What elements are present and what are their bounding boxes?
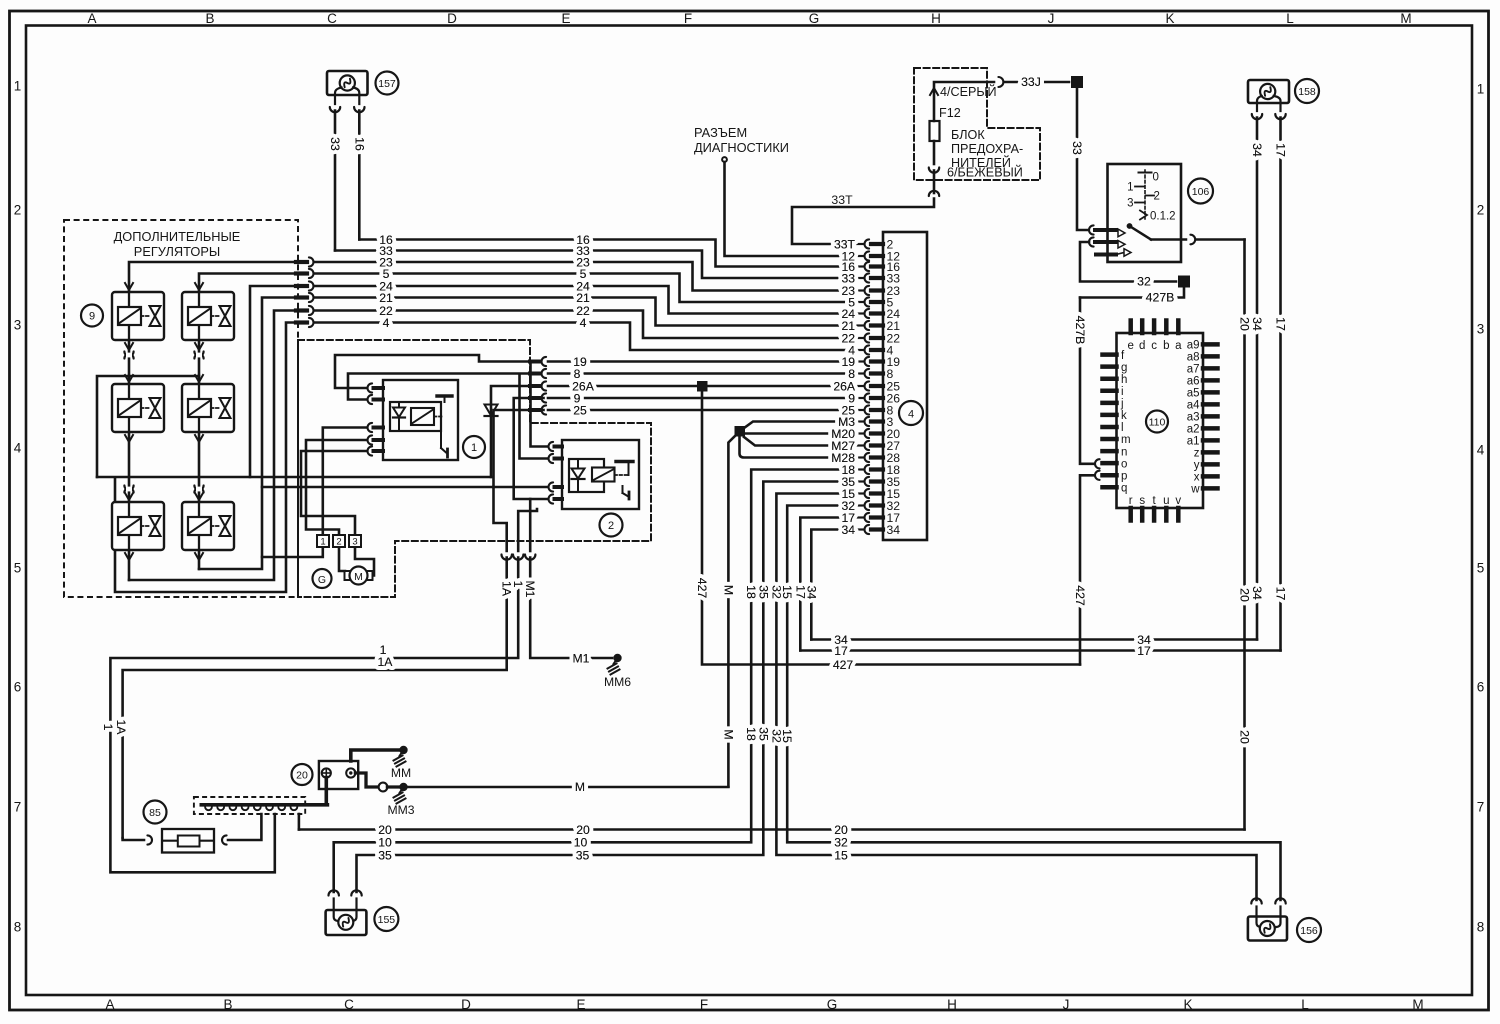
wire 32 (row 32 to 156 right): [787, 506, 1280, 901]
svg-text:K: K: [1165, 11, 1174, 26]
ECU pin 22/22: [857, 331, 900, 345]
connector on wire 34 of 158: [1252, 114, 1262, 119]
svg-text:35: 35: [756, 727, 770, 741]
regulator valve 21: [112, 384, 164, 432]
svg-text:4/СЕРЫЙ: 4/СЕРЫЙ: [940, 84, 997, 99]
ECU connector 4 body: [883, 232, 927, 540]
wire from fuse bottom: [933, 141, 936, 164]
svg-text:1: 1: [380, 643, 387, 657]
svg-text:a5: a5: [1187, 388, 1200, 400]
svg-text:3: 3: [352, 536, 357, 547]
svg-text:17: 17: [1274, 317, 1288, 331]
ECU pin 12/12: [857, 249, 900, 263]
wire 33T from fuse to connector pin: [792, 199, 934, 245]
wire 34 horizontal: [811, 638, 1257, 641]
svg-text:32: 32: [834, 836, 848, 850]
switch left pin 2 (wire 32): [1089, 237, 1125, 248]
svg-text:33: 33: [1070, 141, 1084, 155]
label circle 155: [374, 907, 398, 931]
svg-text:4: 4: [580, 316, 587, 330]
svg-text:M: M: [1400, 11, 1411, 26]
junction node 26A/427: [697, 381, 708, 392]
regulator valve 11: [112, 292, 164, 340]
svg-text:М: М: [354, 571, 363, 583]
wire col1 vertical: [128, 292, 131, 580]
comp1 left pins: [367, 383, 383, 455]
ECU pin 33Т/2: [857, 237, 894, 251]
wire strip to 20 line: [298, 814, 301, 830]
svg-text:L: L: [1301, 997, 1309, 1012]
svg-text:6: 6: [1477, 680, 1485, 695]
regulator valve 31: [112, 502, 164, 550]
component 1 injection module: [383, 380, 458, 460]
svg-text:20: 20: [296, 770, 308, 782]
svg-text:2: 2: [14, 203, 22, 218]
svg-text:М1: М1: [573, 651, 590, 665]
switch left pin 1 (wire 33): [1089, 225, 1125, 236]
ground MM6: [604, 654, 631, 689]
svg-text:B: B: [205, 11, 214, 26]
svg-text:M: M: [1412, 997, 1423, 1012]
svg-text:34: 34: [1250, 317, 1264, 331]
svg-text:F: F: [700, 997, 708, 1012]
diode: [485, 405, 498, 417]
svg-text:106: 106: [1192, 186, 1210, 198]
row numbers right: [1477, 82, 1485, 935]
wire 487 bus to comp2 pin3: [262, 486, 548, 489]
svg-text:ММ6: ММ6: [604, 675, 631, 689]
ECU pin 18/18: [857, 463, 900, 477]
regulator valve 32: [182, 502, 234, 550]
wire 8: [548, 372, 851, 375]
svg-text:p: p: [1121, 470, 1127, 482]
svg-text:o: o: [1121, 458, 1127, 470]
svg-text:110: 110: [1149, 417, 1166, 429]
wire 35: [357, 482, 845, 893]
component 157 ignition module: [327, 71, 368, 104]
svg-text:G: G: [318, 574, 326, 586]
label circle 20: [292, 764, 313, 785]
svg-text:427: 427: [695, 578, 709, 599]
svg-text:34: 34: [804, 586, 818, 600]
relay 20 box: [319, 761, 358, 789]
wire 33J to junction: [1004, 81, 1069, 84]
wire 1A vertical: [494, 487, 507, 551]
svg-text:34: 34: [841, 523, 855, 537]
wire 20 bottom: [299, 828, 1245, 831]
wire 33 from 157: [334, 111, 337, 251]
svg-text:21: 21: [576, 291, 590, 305]
svg-text:ММ: ММ: [391, 766, 411, 780]
wire M vertical: [728, 436, 735, 787]
wire box1 to regulator bus: [262, 547, 323, 557]
svg-text:4: 4: [14, 441, 22, 456]
svg-text:17: 17: [1137, 644, 1151, 658]
svg-text:E: E: [561, 11, 570, 26]
svg-text:k: k: [1121, 410, 1127, 422]
ECU pin 34/34: [857, 523, 900, 537]
svg-text:М: М: [721, 729, 735, 739]
regulator output pins: [296, 257, 314, 327]
svg-text:34: 34: [887, 523, 901, 537]
svg-text:34: 34: [1250, 586, 1264, 600]
wire 34 from 158 down: [1256, 118, 1259, 640]
svg-text:БЛОК: БЛОК: [951, 128, 985, 142]
label circle 158: [1295, 79, 1319, 103]
ECU pin 8/8: [857, 367, 894, 381]
wire relay 20 to ground MM: [351, 750, 400, 761]
wire comp1 pin2 to 8: [348, 374, 532, 400]
svg-text:1: 1: [1127, 182, 1133, 194]
ECU pin 35/35: [857, 475, 900, 489]
svg-text:a3: a3: [1187, 412, 1200, 424]
connector strip bus bar: [201, 803, 327, 807]
svg-text:a4: a4: [1187, 400, 1200, 412]
ECU pin М3/3: [857, 415, 894, 429]
svg-text:g: g: [1121, 362, 1127, 374]
svg-text:d: d: [1139, 340, 1145, 352]
wire comp1 pin3 to box 1: [323, 428, 367, 536]
svg-text:J: J: [1048, 11, 1055, 26]
motor M: [345, 567, 373, 585]
svg-text:15: 15: [834, 848, 848, 862]
svg-text:H: H: [931, 11, 941, 26]
svg-text:q: q: [1121, 482, 1127, 494]
svg-text:G: G: [809, 11, 820, 26]
label circle 1: [463, 436, 485, 458]
svg-text:A: A: [105, 997, 114, 1012]
ECU pin 9/26: [857, 391, 900, 405]
svg-text:33: 33: [328, 137, 342, 151]
svg-text:K: K: [1183, 997, 1192, 1012]
wire M27: [744, 437, 851, 446]
svg-text:157: 157: [378, 78, 396, 90]
svg-text:21: 21: [379, 291, 393, 305]
svg-text:3: 3: [1477, 322, 1485, 337]
ECU pin 5/5: [857, 295, 894, 309]
svg-text:РЕГУЛЯТОРЫ: РЕГУЛЯТОРЫ: [134, 244, 220, 259]
svg-text:1: 1: [14, 79, 22, 94]
fuse box dashed outline: [914, 68, 1040, 180]
ECU pin 24/24: [857, 307, 900, 321]
svg-text:3: 3: [14, 318, 22, 333]
connector 110 left pins f-q: [1103, 350, 1131, 495]
wire 24 bus: [314, 286, 851, 314]
arrows regulator 21: [125, 375, 133, 442]
connector strip dashed box: [194, 797, 305, 814]
svg-text:5: 5: [14, 561, 22, 576]
wire 26A to diode: [491, 386, 532, 477]
svg-text:D: D: [447, 11, 457, 26]
wire relay 20 to MM3: [355, 773, 378, 787]
svg-text:G: G: [827, 997, 838, 1012]
connector on wire 33 of 157: [330, 107, 340, 112]
wire 427B elbow: [1080, 288, 1184, 298]
component 156 sensor: [1248, 907, 1287, 941]
fuse 85 right connector: [222, 835, 227, 844]
svg-text:М: М: [575, 780, 585, 794]
svg-text:a1: a1: [1187, 436, 1200, 448]
label circle 9: [81, 305, 103, 327]
wire 17 vertical: [800, 518, 844, 651]
ECU pin 21/21: [857, 319, 900, 333]
ECU pin 4/4: [857, 343, 894, 357]
ECU pin 19/19: [857, 355, 900, 369]
connector on 155 right wire: [351, 890, 361, 895]
arrows regulator 12: [195, 283, 203, 350]
wire 16 from 157: [358, 111, 361, 240]
wire 25 branch: [494, 410, 544, 487]
component 158 ignition module: [1248, 80, 1289, 111]
wire pin 24 branch: [250, 286, 296, 477]
connector 110 bottom pins r s t u v: [1129, 495, 1182, 521]
wire 23 bus: [314, 262, 851, 291]
wire relay 20 to strip: [324, 778, 328, 804]
wire comp2 pin2 to 8: [520, 374, 549, 459]
svg-text:18: 18: [744, 585, 758, 599]
svg-text:v: v: [1175, 495, 1181, 507]
wire M1 vertical: [529, 499, 532, 551]
svg-text:РАЗЪЕМ: РАЗЪЕМ: [694, 125, 747, 140]
svg-text:ДИАГНОСТИКИ: ДИАГНОСТИКИ: [694, 140, 789, 155]
wire comp1 pin5 to box 3: [301, 451, 367, 535]
svg-text:8: 8: [1477, 920, 1485, 935]
ECU pin 15/15: [857, 487, 900, 501]
svg-text:20: 20: [1238, 588, 1252, 602]
ECU pin 32/32: [857, 499, 900, 513]
label circle 110: [1146, 411, 1168, 433]
column letters top: [87, 11, 1411, 26]
additional regulators title: [114, 229, 241, 259]
svg-text:F12: F12: [939, 106, 961, 120]
arrows regulator 11: [125, 283, 133, 350]
wire M28: [740, 437, 852, 458]
wire from switch to 20 vertical: [1196, 238, 1245, 241]
fuse box labels: [939, 84, 1023, 180]
wire 427 vertical: [702, 392, 1080, 665]
label circle 106: [1188, 179, 1213, 204]
svg-text:C: C: [344, 997, 354, 1012]
diagnostic connector label: [694, 125, 789, 162]
svg-text:20: 20: [1238, 730, 1252, 744]
svg-text:C: C: [327, 11, 337, 26]
svg-text:7: 7: [14, 800, 22, 815]
wire box3 to motor: [355, 547, 374, 576]
arrows regulator 22: [195, 375, 203, 442]
wire 9 to comp2 pin4: [514, 398, 548, 499]
svg-text:427В: 427В: [1146, 291, 1175, 305]
svg-text:6/БЕЖЕВЫЙ: 6/БЕЖЕВЫЙ: [947, 165, 1023, 180]
svg-text:6: 6: [14, 680, 22, 695]
component 155 sensor: [326, 899, 367, 936]
ECU pin 25/8: [857, 403, 894, 417]
label circle 156: [1297, 918, 1321, 942]
additional regulators dashed box: [64, 220, 298, 597]
svg-text:5: 5: [1477, 561, 1485, 576]
svg-text:34: 34: [1250, 143, 1264, 157]
label circle 4: [899, 401, 923, 425]
svg-text:E: E: [576, 997, 585, 1012]
svg-text:33Т: 33Т: [831, 193, 853, 207]
svg-text:l: l: [1121, 422, 1124, 434]
junction node M: [735, 426, 746, 437]
svg-text:1А: 1А: [378, 655, 394, 669]
wire col2 vertical: [198, 292, 201, 569]
ECU pin М27/27: [857, 439, 900, 453]
svg-text:158: 158: [1298, 86, 1316, 98]
svg-text:1: 1: [1477, 82, 1485, 97]
switch position diagram: [1127, 170, 1175, 223]
wire 15 (row 15 to 156 left): [776, 494, 1256, 901]
wire pin 21 branch: [199, 298, 296, 570]
svg-text:1: 1: [320, 536, 325, 547]
svg-text:2: 2: [608, 520, 614, 532]
svg-text:427В: 427В: [1073, 316, 1087, 345]
wire pin 4 branch: [115, 323, 296, 593]
svg-text:2: 2: [336, 536, 341, 547]
svg-text:1А: 1А: [114, 719, 128, 735]
svg-text:15: 15: [780, 729, 794, 743]
svg-text:32: 32: [1137, 275, 1151, 289]
wire 9: [548, 397, 851, 400]
wire 19: [548, 360, 851, 363]
svg-text:156: 156: [1300, 925, 1318, 937]
svg-text:a7: a7: [1187, 364, 1200, 376]
svg-text:ПРЕДОХРА-: ПРЕДОХРА-: [951, 142, 1023, 156]
column letters bottom: [105, 997, 1423, 1012]
components 1-2 dashed outline: [298, 340, 651, 597]
fuse lower connector pair: [929, 168, 939, 173]
junction node 33J/33: [1071, 76, 1083, 88]
regulator valve 22: [182, 384, 234, 432]
svg-text:w: w: [1190, 484, 1200, 496]
connector on 156 left wire: [1251, 898, 1261, 903]
wire comp1 pin4 to box 2: [306, 440, 367, 535]
svg-text:85: 85: [149, 807, 161, 819]
svg-text:0: 0: [1153, 172, 1159, 184]
inline connector pair regulator column: [124, 486, 133, 493]
svg-text:4: 4: [1477, 443, 1485, 458]
connector pin p inline connector: [1095, 471, 1100, 480]
wire 427 from pin p down: [1080, 475, 1094, 664]
connector strip contacts: [205, 807, 297, 810]
terminal box 3: [349, 535, 361, 547]
svg-text:s: s: [1139, 495, 1145, 507]
wire 18 (to 10): [334, 470, 844, 893]
wire 32 from switch pin 2: [1080, 242, 1176, 282]
svg-text:1: 1: [471, 442, 477, 454]
svg-text:n: n: [1121, 446, 1127, 458]
ignition switch 106 body: [1108, 164, 1182, 262]
wire comp2 pin1 to 19: [531, 362, 549, 447]
wire 1A to fuse 85: [123, 838, 144, 840]
svg-text:16: 16: [352, 137, 366, 151]
svg-text:H: H: [947, 997, 957, 1012]
svg-text:20: 20: [378, 823, 392, 837]
inline connector pair regulator column: [194, 486, 203, 493]
wire M horizontal: [408, 786, 729, 789]
svg-text:20: 20: [834, 823, 848, 837]
connector 110 top pins e d c b a: [1127, 321, 1182, 353]
connector 110 body: [1117, 333, 1204, 508]
svg-text:D: D: [461, 997, 471, 1012]
connector on 155 left wire: [329, 890, 339, 895]
wire 5 bus: [314, 274, 851, 303]
svg-text:35: 35: [576, 848, 590, 862]
svg-text:1: 1: [101, 724, 115, 731]
svg-text:B: B: [223, 997, 232, 1012]
wire M20: [745, 432, 851, 435]
inline connector pair regulator column: [194, 352, 203, 359]
row numbers left: [14, 79, 22, 935]
connector 110 right pins a9-a1 z y x w: [1187, 340, 1218, 496]
wire 20 vertical: [1243, 240, 1246, 830]
switch output connector: [1190, 235, 1195, 245]
generator circle G: [313, 569, 332, 588]
label circle 157: [376, 72, 399, 95]
wire to ground MM3: [387, 785, 400, 788]
wire 21 bus: [314, 298, 851, 326]
pins 19/8/26A/9/25 at dashed edge: [530, 357, 546, 415]
svg-text:18: 18: [744, 727, 758, 741]
svg-text:a: a: [1175, 340, 1182, 352]
svg-text:L: L: [1286, 11, 1294, 26]
svg-text:m: m: [1121, 434, 1131, 446]
ECU pin 26А/25: [857, 379, 900, 393]
connector pin o inline connector: [1095, 459, 1100, 468]
terminal box 1: [317, 535, 329, 547]
svg-text:1: 1: [511, 581, 525, 588]
inline connector pair regulator column: [124, 352, 133, 359]
junction node 32/427B: [1178, 276, 1190, 288]
wire 17 horizontal: [800, 649, 1280, 652]
svg-text:a8: a8: [1187, 352, 1200, 364]
svg-text:15: 15: [780, 585, 794, 599]
svg-text:17: 17: [1274, 143, 1288, 157]
svg-text:ДОПОЛНИТЕЛЬНЫЕ: ДОПОЛНИТЕЛЬНЫЕ: [114, 229, 241, 244]
fuse F12: [930, 121, 940, 141]
arrows regulator 32: [195, 493, 203, 560]
wire 33 from junction to switch 106: [1077, 88, 1087, 230]
ECU pin М28/28: [857, 451, 900, 465]
svg-text:20: 20: [1238, 317, 1252, 331]
svg-text:М: М: [721, 585, 735, 595]
svg-text:4: 4: [383, 316, 390, 330]
svg-text:4: 4: [908, 409, 914, 421]
fuse 85 body: [162, 829, 214, 853]
svg-text:17: 17: [1274, 587, 1288, 601]
switch contact blade: [1127, 223, 1186, 239]
label circle 85: [144, 801, 167, 824]
wire 427B vertical to connector 110 pin o: [1080, 298, 1094, 464]
svg-text:3: 3: [1127, 198, 1133, 210]
svg-text:i: i: [1121, 386, 1124, 398]
ground MM3: [387, 783, 414, 817]
wire regulator bus: [97, 476, 491, 479]
svg-text:17: 17: [834, 644, 848, 658]
svg-text:y: y: [1194, 460, 1200, 472]
svg-text:h: h: [1121, 374, 1127, 386]
svg-text:A: A: [87, 11, 96, 26]
comp2 left pins: [549, 442, 563, 504]
wire col1 to pin 23: [129, 262, 296, 292]
wire 25: [548, 409, 851, 412]
wire 26A: [548, 385, 851, 388]
wire 33 bus: [335, 251, 851, 279]
svg-text:ММ3: ММ3: [387, 803, 414, 817]
wire from fuse top to 33J: [934, 82, 994, 121]
svg-text:c: c: [1151, 340, 1157, 352]
